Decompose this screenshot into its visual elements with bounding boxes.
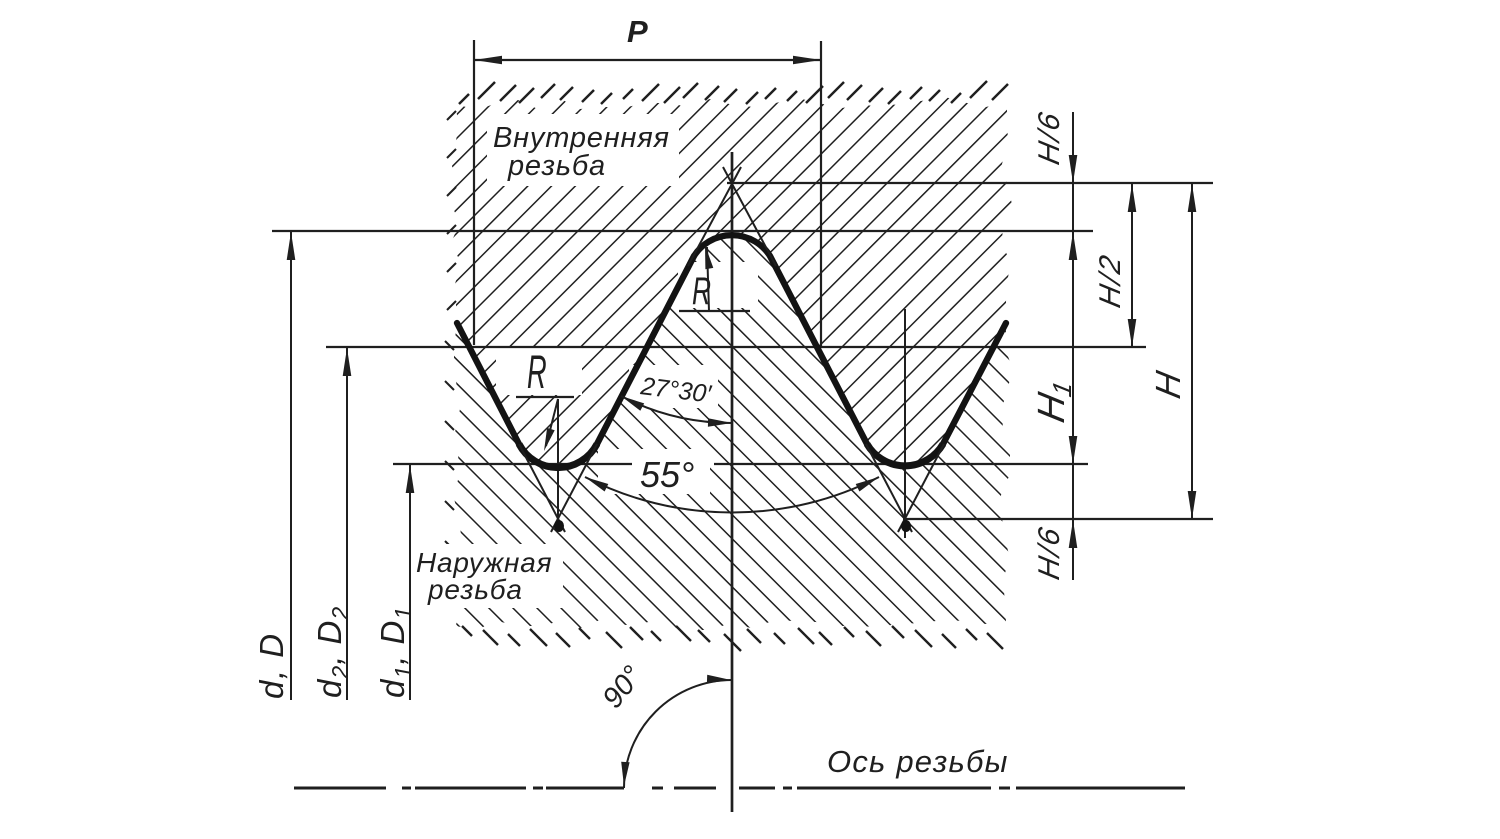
label halo internal thread xyxy=(487,114,679,186)
arrow H6 bottom up xyxy=(1069,520,1078,548)
hatch ragged left edge xyxy=(445,111,456,590)
node apex line H top xyxy=(727,182,1213,184)
svg-text:резьба: резьба xyxy=(507,150,606,182)
sharp tip crest left xyxy=(688,167,741,266)
arrow H/2 top xyxy=(1128,184,1137,212)
arrow R root xyxy=(544,428,555,451)
hatch external thread region xyxy=(454,235,1012,630)
profile left root arc xyxy=(519,444,597,468)
svg-text:55°: 55° xyxy=(640,454,694,495)
dimension line H xyxy=(1191,183,1193,519)
arrow H top xyxy=(1188,184,1197,212)
dimension line d-D xyxy=(290,231,292,700)
svg-text:H/6: H/6 xyxy=(1033,108,1066,168)
label halo 55deg xyxy=(598,449,710,494)
profile flank left partial xyxy=(457,323,519,444)
svg-text:d2, D2: d2, D2 xyxy=(311,606,353,698)
arrow H6 top down xyxy=(1069,155,1078,183)
profile flank center-right xyxy=(770,256,867,444)
arrow d-D xyxy=(287,232,296,260)
svg-text:Ось резьбы: Ось резьбы xyxy=(827,744,1009,779)
arrow d2-D2 xyxy=(343,348,352,376)
dimension line H/2 xyxy=(1131,183,1133,347)
svg-text:P: P xyxy=(627,14,648,49)
extension line P left xyxy=(473,40,475,345)
arrow H1 top up xyxy=(1069,232,1078,260)
dimension line d2-D2 xyxy=(346,347,348,700)
arrow P right xyxy=(793,56,821,65)
svg-text:d, D: d, D xyxy=(253,632,290,699)
arrow 55deg left xyxy=(585,477,608,492)
profile flank right partial xyxy=(943,323,1006,444)
hatch ragged top edge xyxy=(459,81,1008,104)
svg-text:H/6: H/6 xyxy=(1033,523,1066,583)
svg-text:резьба: резьба xyxy=(427,574,523,605)
label halo R root xyxy=(496,348,582,395)
sharp tip crest right xyxy=(723,167,776,266)
extension line P right xyxy=(820,41,822,347)
center line thread profile xyxy=(731,152,734,812)
center line right root xyxy=(904,309,906,538)
arrow 90deg top xyxy=(707,675,731,683)
underline R crest xyxy=(679,310,750,312)
label halo R crest xyxy=(678,262,758,308)
arrow 27deg30 right xyxy=(708,418,732,426)
label halo external thread xyxy=(409,544,563,608)
dimension line P xyxy=(474,59,821,61)
node sharp-root line H bottom xyxy=(903,518,1213,520)
line d2-D2 pitch diameter xyxy=(326,346,1146,348)
arc 55deg full angle xyxy=(585,477,879,513)
sharp tip left root a xyxy=(519,444,565,532)
arrow 27deg30 left xyxy=(621,396,644,411)
arrow H bottom xyxy=(1188,491,1197,519)
arrow 55deg right xyxy=(856,477,879,492)
junction blob left root apex xyxy=(554,520,564,532)
arrow R crest xyxy=(705,245,713,269)
dimension line d1-D1 xyxy=(409,464,411,700)
hatch internal thread region xyxy=(450,97,1012,468)
sharp tip right root b xyxy=(898,444,944,532)
profile flank center-left xyxy=(597,256,694,444)
axis of thread dash-dot line xyxy=(294,787,1185,790)
leader R crest xyxy=(707,247,709,311)
profile crest arc xyxy=(694,235,770,256)
underline R root xyxy=(516,396,574,398)
svg-text:d1, D1: d1, D1 xyxy=(374,606,416,698)
line d-D major diameter xyxy=(272,230,1093,232)
dimension line H6-H1 stack xyxy=(1072,112,1074,580)
leader R root xyxy=(546,399,558,446)
svg-text:H/2: H/2 xyxy=(1094,251,1127,311)
arrow H1 bottom down xyxy=(1069,436,1078,464)
hatch ragged bottom edge xyxy=(462,626,1003,651)
junction blob right root apex xyxy=(901,520,911,532)
line d1-D1 minor diameter left xyxy=(393,463,632,465)
sharp tip right root a xyxy=(866,444,912,532)
arc 90deg axis angle xyxy=(624,680,732,788)
label halo 27deg30 xyxy=(629,365,718,408)
center line left root xyxy=(557,399,559,531)
svg-text:R: R xyxy=(692,270,711,313)
arrow P left xyxy=(474,56,502,65)
arc 27deg30 half-angle xyxy=(621,396,732,423)
arrow 90deg bottom xyxy=(621,762,629,786)
line d1-D1 minor diameter right xyxy=(714,463,1088,465)
arrow H/2 bottom xyxy=(1128,319,1137,347)
arrow d1-D1 xyxy=(406,465,415,493)
profile right root arc xyxy=(867,444,943,466)
svg-text:R: R xyxy=(527,346,547,399)
sharp tip left root b xyxy=(551,444,597,532)
